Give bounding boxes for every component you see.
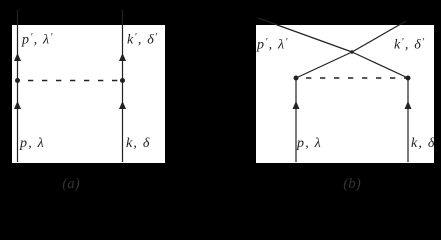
- fermion line left vertical (p): [295, 78, 297, 162]
- svg-text:k′, δ′: k′, δ′: [394, 37, 425, 53]
- vertex dot right: [406, 76, 411, 81]
- svg-text:k, δ: k, δ: [411, 136, 436, 151]
- outgoing fermion line: crossing to upper left end: [258, 18, 352, 52]
- arrow up, left line upper: [14, 53, 21, 61]
- arrow up, right vertical: [405, 101, 412, 109]
- crossing dot: [350, 50, 353, 53]
- svg-text:(b): (b): [343, 176, 361, 192]
- photon propagator (dashed): [28, 80, 123, 82]
- arrow up, right line lower: [119, 101, 126, 109]
- svg-text:p′, λ′: p′, λ′: [21, 32, 54, 48]
- panel (a) white background: [12, 25, 165, 163]
- vertex dot left: [15, 78, 20, 83]
- arrow up, left vertical: [293, 101, 300, 109]
- vertex dot left: [294, 76, 299, 81]
- arrow up, right line upper: [119, 53, 126, 61]
- svg-text:p′, λ′: p′, λ′: [256, 37, 289, 53]
- outgoing fermion line: left vertex to crossing: [296, 52, 352, 78]
- arrow up, left line lower: [14, 101, 21, 109]
- photon propagator (dashed): [306, 77, 408, 79]
- svg-text:p, λ: p, λ: [296, 136, 322, 151]
- fermion line right (k): [122, 10, 124, 162]
- svg-text:p, λ: p, λ: [19, 136, 45, 151]
- vertex dot right: [120, 78, 125, 83]
- panel (b) white background: [256, 25, 434, 163]
- outgoing fermion line: right vertex to crossing: [352, 52, 408, 78]
- outgoing fermion line: crossing to upper right end: [352, 21, 406, 52]
- svg-text:(a): (a): [62, 176, 80, 192]
- svg-text:k, δ: k, δ: [126, 136, 151, 151]
- svg-text:k′, δ′: k′, δ′: [127, 32, 158, 48]
- fermion line right vertical (k): [407, 78, 409, 162]
- fermion line left (p): [17, 10, 19, 162]
